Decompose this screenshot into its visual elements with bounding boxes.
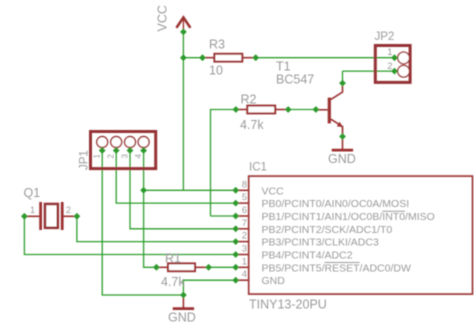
svg-text:GND: GND xyxy=(328,152,356,166)
svg-text:PB4/PCINT4/ADC2: PB4/PCINT4/ADC2 xyxy=(262,250,353,262)
overline RESET xyxy=(325,262,360,264)
junction JP1 pin1 xyxy=(99,147,106,154)
junction collector xyxy=(339,80,346,87)
pin 8 stub xyxy=(236,189,249,191)
junction pin5 xyxy=(232,200,239,207)
svg-text:5: 5 xyxy=(242,192,247,203)
junction R3 pin2 xyxy=(252,54,259,61)
junction row8 branch xyxy=(140,187,147,194)
wire row6 xyxy=(211,215,236,217)
junction pin8 xyxy=(232,187,239,194)
wire JP1 pin2 to row5 xyxy=(116,151,236,204)
svg-text:6: 6 xyxy=(242,205,247,216)
junction pin6 xyxy=(232,213,239,220)
junction T1 base xyxy=(313,106,320,113)
wire R1 right to row1 xyxy=(209,266,236,268)
pin 5 stub xyxy=(236,202,249,204)
svg-text:2: 2 xyxy=(107,154,116,159)
svg-text:PB0/PCINT0/AIN0/OC0A/MOSI: PB0/PCINT0/AIN0/OC0A/MOSI xyxy=(262,198,410,210)
junction Q1 pin2 xyxy=(74,213,81,220)
wire JP1 pin1 to GND xyxy=(102,151,183,296)
svg-text:1: 1 xyxy=(30,205,35,215)
svg-text:R2: R2 xyxy=(241,93,257,107)
svg-text:2: 2 xyxy=(66,205,71,215)
svg-text:JP2: JP2 xyxy=(375,31,395,43)
svg-text:Q1: Q1 xyxy=(24,186,41,200)
svg-text:PB3/PCINT3/CLKI/ADC3: PB3/PCINT3/CLKI/ADC3 xyxy=(262,237,379,249)
wire collector vertical xyxy=(342,71,344,83)
junction pin7 xyxy=(232,225,239,232)
svg-text:TINY13-20PU: TINY13-20PU xyxy=(249,298,327,312)
wire R3 left xyxy=(183,57,202,59)
pin 2 stub xyxy=(236,241,249,243)
pin 1 stub xyxy=(236,266,249,268)
wire JP1 pin3 to row7 xyxy=(130,151,236,229)
wire R3 right to JP2 pin1 xyxy=(256,57,395,59)
crystal Q1 xyxy=(24,202,77,230)
junction JP2 pin2 xyxy=(391,68,398,75)
svg-text:T1: T1 xyxy=(276,60,291,74)
wire row4 GND xyxy=(183,280,235,295)
resistor R2 xyxy=(236,106,288,114)
wire row8 VCC xyxy=(144,189,236,191)
wire Q1 pin1 to row3 xyxy=(24,216,235,254)
svg-text:1: 1 xyxy=(242,256,247,267)
resistor R3 xyxy=(203,54,256,62)
wire JP2 pin2 horizontal xyxy=(343,70,395,72)
pin 7 stub xyxy=(236,228,249,230)
svg-text:VCC: VCC xyxy=(156,5,170,31)
svg-text:R1: R1 xyxy=(165,252,181,266)
junction VCC R3 xyxy=(180,54,187,61)
svg-text:3: 3 xyxy=(242,244,247,255)
svg-text:VCC: VCC xyxy=(262,185,285,197)
svg-text:GND: GND xyxy=(262,275,286,287)
junction R2 pin2 xyxy=(285,106,292,113)
junction pin3 xyxy=(232,251,239,258)
svg-text:10: 10 xyxy=(209,64,223,78)
svg-text:PB1/PCINT1/AIN1/OC0B/INT0/MISO: PB1/PCINT1/AIN1/OC0B/INT0/MISO xyxy=(262,211,435,223)
svg-text:4.7k: 4.7k xyxy=(240,118,264,132)
transistor T1 xyxy=(316,83,343,136)
svg-text:3: 3 xyxy=(121,154,130,159)
connector JP2 xyxy=(375,46,410,83)
overline INT0 xyxy=(382,210,405,212)
svg-text:JP1: JP1 xyxy=(79,150,91,170)
wire JP1 pin4 vertical xyxy=(144,151,157,268)
junction JP1 pin4 xyxy=(140,147,147,154)
junction JP1 pin2 xyxy=(113,147,120,154)
svg-text:GND: GND xyxy=(168,311,196,325)
svg-text:1: 1 xyxy=(93,154,102,159)
junction R3 pin1 xyxy=(199,54,206,61)
wire Q1 pin2 to row2 xyxy=(77,216,236,241)
junction VCC top xyxy=(180,29,187,36)
ground bottom xyxy=(173,295,194,309)
wire R2 left corner xyxy=(211,110,236,217)
junction R1 pin1 xyxy=(153,264,160,271)
resistor R1 xyxy=(156,263,208,271)
junction pin2 xyxy=(232,238,239,245)
wire VCC vertical xyxy=(182,32,184,190)
svg-text:8: 8 xyxy=(242,179,247,190)
junction pin1 xyxy=(232,264,239,271)
pin 3 stub xyxy=(236,254,249,256)
wire R2 right to base xyxy=(288,109,316,111)
pin 4 stub xyxy=(236,279,249,281)
junction Q1 pin1 xyxy=(21,213,28,220)
pin 6 stub xyxy=(236,215,249,217)
svg-text:1: 1 xyxy=(387,47,392,58)
svg-text:BC547: BC547 xyxy=(276,73,314,87)
ground T1 xyxy=(332,137,353,151)
connector JP1 xyxy=(91,132,156,169)
junction R1 pin2 xyxy=(205,264,212,271)
svg-text:PB2/PCINT2/SCK/ADC1/T0: PB2/PCINT2/SCK/ADC1/T0 xyxy=(262,224,393,236)
wire emitter to ground xyxy=(342,126,344,137)
svg-text:4: 4 xyxy=(242,269,247,280)
junction pin4 xyxy=(232,277,239,284)
VCC symbol xyxy=(176,17,190,32)
junction JP2 pin1 xyxy=(391,54,398,61)
svg-text:4: 4 xyxy=(134,154,143,159)
svg-text:2: 2 xyxy=(387,61,392,72)
junction R2 pin1 xyxy=(233,106,240,113)
IC U1 box xyxy=(249,176,473,294)
junction JP1 pin3 xyxy=(127,147,134,154)
junction GND bottom xyxy=(180,292,187,299)
svg-text:2: 2 xyxy=(242,231,247,242)
svg-text:7: 7 xyxy=(242,218,247,229)
svg-text:PB5/PCINT5/RESET/ADC0/DW: PB5/PCINT5/RESET/ADC0/DW xyxy=(262,262,411,274)
svg-text:4.7k: 4.7k xyxy=(161,275,185,289)
svg-text:R3: R3 xyxy=(209,38,225,52)
junction emitter gnd xyxy=(339,133,346,140)
svg-text:IC1: IC1 xyxy=(249,162,267,174)
